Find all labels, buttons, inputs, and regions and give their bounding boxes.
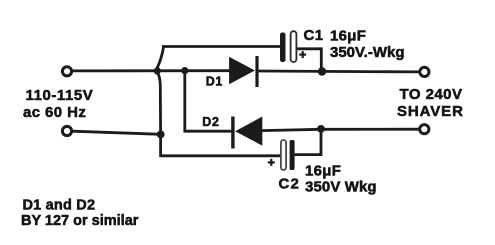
wire bottom input from left terminal (73, 131, 161, 134)
wire kinked vertical crossing (top rail corner down to bottom node) (157, 46, 164, 135)
diode D1 cathode bar (255, 56, 258, 87)
svg-text:16μF: 16μF (330, 27, 366, 44)
svg-text:D2: D2 (202, 115, 220, 129)
terminal top-left (62, 67, 71, 76)
wire C2 riser up to D2 rail (295, 129, 321, 154)
wire D2 cathode rail to riser junction (262, 129, 321, 130)
svg-text:TO 240V: TO 240V (400, 86, 463, 103)
capacitor C2 left plate (hollow) (281, 140, 286, 170)
junction blob at kinked crossing (154, 67, 161, 75)
wire top input from left terminal to D1 anode (73, 69, 230, 72)
junction node C1 output / top-right (318, 67, 326, 75)
capacitor C2 right plate (solid) (290, 140, 295, 170)
capacitor C1 left plate (solid) (280, 33, 286, 63)
svg-text:BY 127 or similar: BY 127 or similar (21, 213, 139, 229)
svg-text:D1 and D2: D1 and D2 (23, 198, 96, 214)
terminal bottom-left (62, 126, 71, 135)
wire D1 cathode to C1 junction (258, 70, 321, 73)
wire top rail to C1 (162, 45, 280, 48)
svg-text:16μF: 16μF (305, 163, 341, 180)
terminal top-right (420, 67, 429, 76)
svg-text:110-115V: 110-115V (26, 87, 94, 104)
wire bottom node down and bottom rail to C2 (161, 134, 282, 156)
capacitor C1 right plate (hollow) (291, 31, 297, 62)
svg-text:SHAVER: SHAVER (397, 103, 464, 120)
svg-text:ac 60 Hz: ac 60 Hz (23, 104, 86, 121)
junction node at D2 branch (181, 67, 188, 74)
svg-text:350V Wkg: 350V Wkg (305, 179, 377, 196)
wire C1 output corner down (297, 49, 322, 72)
svg-text:D1: D1 (206, 75, 223, 89)
wire to top-right terminal (322, 70, 420, 73)
svg-text:350V.-Wkg: 350V.-Wkg (330, 44, 404, 61)
svg-text:C2: C2 (279, 176, 301, 193)
wire to bottom-right terminal (321, 128, 420, 131)
C2 plus sign (268, 159, 275, 166)
terminal bottom-right (420, 125, 429, 134)
diode D1 triangle (230, 58, 254, 84)
diode D2 cathode bar (231, 117, 234, 149)
svg-text:C1: C1 (304, 27, 324, 44)
wire D2 branch vertical and D2 rail left (185, 71, 232, 132)
diode D2 triangle (236, 117, 262, 144)
junction node bottom-left (157, 131, 165, 139)
junction node C2 riser / D2 rail (317, 125, 325, 133)
C1 plus sign (299, 51, 306, 58)
